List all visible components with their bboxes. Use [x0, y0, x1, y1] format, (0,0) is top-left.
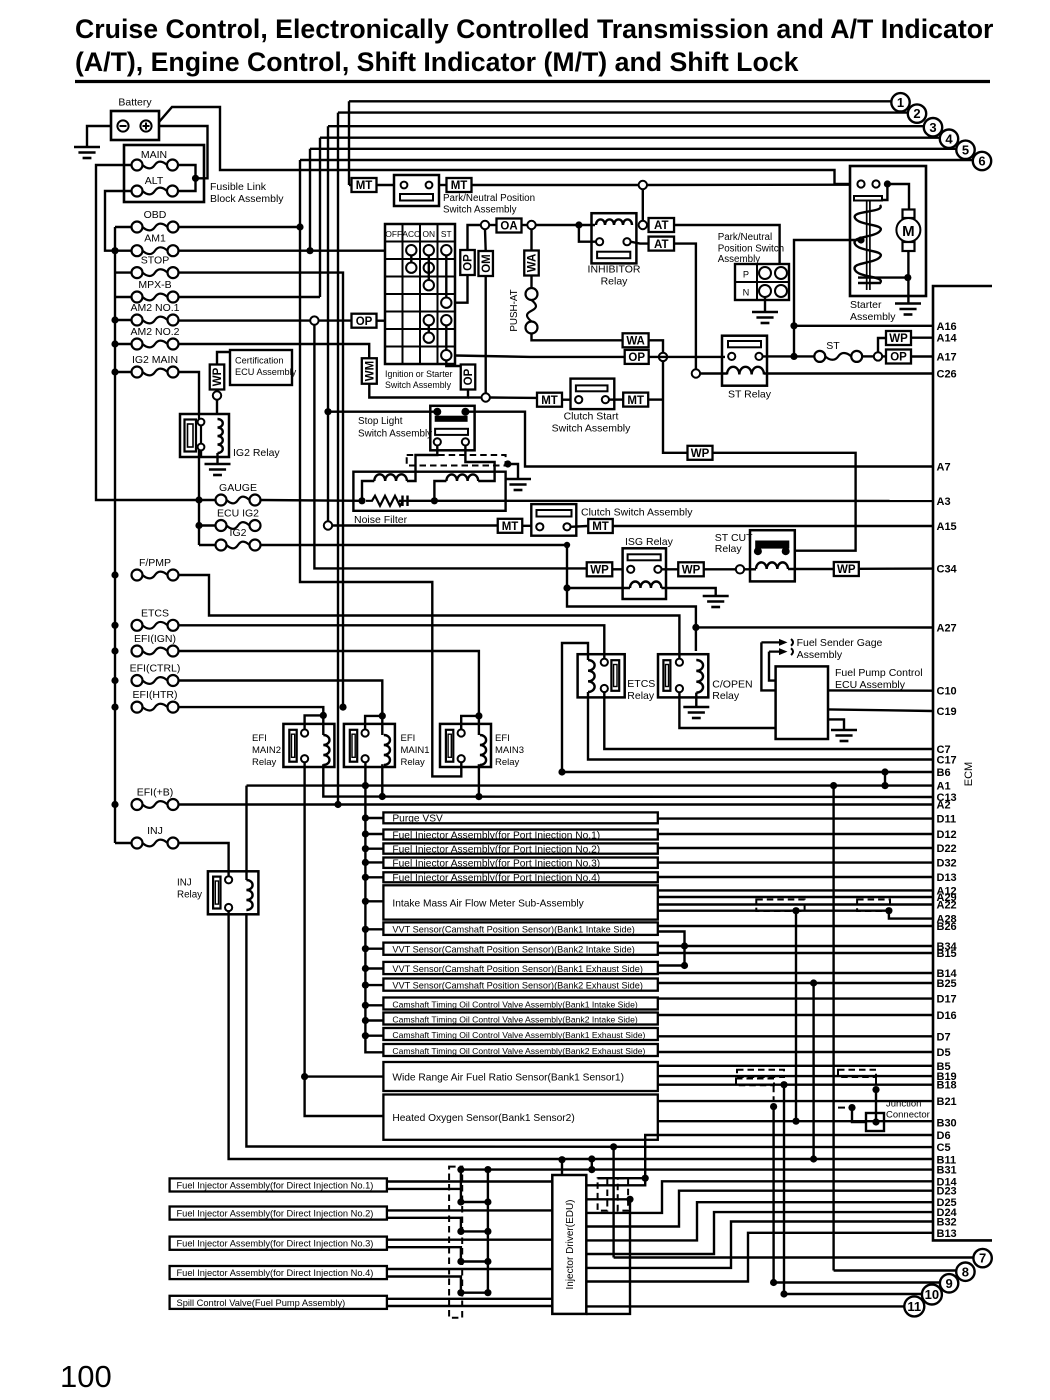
wire fuel injector direct 2 return	[387, 1218, 488, 1232]
junction gauge feed	[195, 496, 202, 503]
svg-text:Wide Range Air Fuel Ratio Sens: Wide Range Air Fuel Ratio Sensor(Bank1 S…	[392, 1072, 624, 1083]
wire C5 drop to circle 7	[612, 1147, 614, 1258]
ignition switch row line	[385, 258, 455, 260]
wire WP to IG2 relay coil	[216, 400, 218, 414]
wire A1 drop to circle 8	[832, 786, 834, 1271]
park/neutral contacts	[759, 267, 771, 279]
junction VVT sensor bank1 intake feed	[362, 926, 369, 933]
wire ISG to WP right	[662, 568, 679, 570]
ignition switch row line	[385, 241, 455, 243]
svg-text:INJ: INJ	[147, 825, 163, 837]
svg-text:VVT Sensor(Camshaft Position S: VVT Sensor(Camshaft Position Sensor)(Ban…	[392, 924, 634, 934]
svg-text:B13: B13	[937, 1228, 957, 1240]
wire VVT3 second stub	[658, 964, 685, 966]
wire OP bottom to WM bottom	[369, 384, 468, 398]
ignition contact ACC row1	[406, 245, 416, 255]
wire starter coil to ST relay	[794, 240, 861, 356]
junction VVT sensor bank2 intake feed	[362, 945, 369, 952]
park/neutral switch bar	[400, 194, 433, 201]
wire ALT left to bus	[105, 191, 132, 251]
junction A16 tap	[790, 322, 797, 329]
svg-text:B26: B26	[937, 921, 957, 933]
ground ISG relay	[703, 595, 729, 598]
junction B30 shield	[792, 1118, 799, 1125]
junction EDU feed	[558, 1156, 565, 1163]
wire AT lower to ST relay coil	[674, 244, 696, 370]
relay EFI MAIN2 box	[283, 724, 334, 767]
svg-text:Relay: Relay	[601, 276, 629, 288]
relay IG2 coil	[218, 419, 223, 453]
svg-text:C26: C26	[937, 369, 957, 381]
wire stop light left contact to noise filter	[407, 446, 437, 482]
relay ISG coil	[630, 582, 661, 588]
wire ETCS contact output to C7	[604, 692, 933, 749]
svg-text:EFI: EFI	[252, 733, 267, 744]
wire MAIN right loop	[178, 165, 196, 191]
wire ETCS fuse to ETCS relay contact	[179, 625, 605, 658]
wire fuel injector port 4 to D13	[658, 876, 933, 878]
relay INHIBITOR contact pins	[596, 238, 603, 245]
svg-text:OA: OA	[500, 221, 517, 233]
svg-text:Fuel Injector Assembly(for Dir: Fuel Injector Assembly(for Direct Inject…	[177, 1239, 374, 1249]
svg-text:Position Switch: Position Switch	[718, 244, 784, 255]
svg-text:Fuel Injector Assembly(for Dir: Fuel Injector Assembly(for Direct Inject…	[177, 1180, 374, 1190]
wire wide range feed	[305, 1075, 384, 1077]
svg-text:4: 4	[945, 131, 953, 146]
wire certification WP branch	[217, 352, 230, 365]
wire EDU shield drain	[598, 1177, 646, 1179]
svg-text:INJ: INJ	[177, 878, 192, 889]
svg-text:VVT Sensor(Camshaft Position S: VVT Sensor(Camshaft Position Sensor)(Ban…	[392, 980, 643, 990]
svg-text:Fuel Injector Assembly(for Por: Fuel Injector Assembly(for Port Injectio…	[392, 844, 600, 855]
fuse AM2 NO.1	[132, 315, 143, 326]
ground IG2 relay coil	[216, 453, 218, 463]
connector circle OA right	[527, 221, 535, 229]
connector MT clutch start left	[537, 393, 562, 407]
fuse INJ	[132, 838, 143, 849]
park/neutral switch pins	[401, 182, 408, 189]
wire ignition row7 to OP box	[455, 356, 625, 357]
wide range air fuel ratio sensor box	[383, 1062, 657, 1091]
connector circle below WP	[213, 391, 221, 399]
wire fuel injector port 1 to D12	[658, 833, 933, 835]
relay INJ bar	[213, 877, 220, 909]
ignition switch row line	[385, 293, 455, 295]
wire coil1 left down	[362, 481, 374, 501]
relay INHIBITOR box	[592, 213, 637, 263]
connector circle 7	[973, 1249, 991, 1267]
wire WP to ST CUT feed	[713, 453, 856, 551]
svg-text:Fusible Link: Fusible Link	[210, 181, 267, 193]
svg-text:C10: C10	[937, 686, 957, 698]
svg-text:D11: D11	[937, 814, 957, 826]
wire return bus stub	[460, 1170, 462, 1189]
svg-text:EFI: EFI	[401, 733, 416, 744]
relay ISG bar	[628, 554, 661, 560]
junction B11 drop	[810, 1155, 817, 1162]
svg-text:ETCS: ETCS	[627, 678, 655, 690]
connector circle 11	[904, 1296, 924, 1316]
wire bus1 drop to MT line	[348, 101, 350, 185]
svg-text:2: 2	[913, 106, 920, 121]
wire ST relay coil to C26	[764, 372, 933, 374]
wire spill control valve signal	[387, 1298, 552, 1300]
connector OP vertical ignition	[460, 250, 475, 275]
wire VVT sensor bank1 intake to B26	[658, 925, 933, 927]
wire OM drop	[484, 230, 487, 252]
park/neutral PN grid	[756, 264, 758, 300]
svg-text:A3: A3	[937, 496, 951, 508]
wire ST fuse to circle	[862, 355, 874, 357]
svg-text:Fuel Injector Assembly(for Dir: Fuel Injector Assembly(for Direct Inject…	[177, 1209, 374, 1219]
wire wide range air fuel ratio sensor to B19	[658, 1075, 933, 1077]
wire bus3 drop to stop light / ECU IG2	[327, 126, 329, 521]
wire resistor-cap link	[411, 500, 434, 502]
junction fuel injector direct 2 return b	[484, 1228, 491, 1235]
wire INJ contact output to B11	[229, 911, 933, 1159]
motor M	[896, 218, 920, 242]
wire IG2 to ISG coil	[261, 545, 631, 588]
svg-text:Assembly: Assembly	[850, 311, 896, 323]
wire camshaft timing valve bank2 intake to D16	[658, 1014, 933, 1016]
svg-text:Noise Filter: Noise Filter	[354, 514, 408, 526]
junction left bus	[111, 340, 118, 347]
dashed shield B19 line	[737, 1070, 784, 1077]
relay EFI MAIN3 box	[440, 724, 491, 767]
wire AM2 NO.1 to connector	[179, 319, 311, 321]
svg-text:A22: A22	[937, 900, 957, 912]
wire WP branch	[878, 338, 886, 352]
junction fuel injector direct 2 return a	[457, 1228, 464, 1235]
junction C5 drop to circle 7	[610, 1143, 617, 1150]
svg-text:ON: ON	[422, 229, 435, 239]
junction ecu ig2 feed	[195, 522, 202, 529]
wire fuel sender inner	[769, 652, 776, 681]
svg-text:B21: B21	[937, 1096, 957, 1108]
svg-text:Battery: Battery	[118, 97, 152, 109]
svg-text:OP: OP	[463, 368, 475, 385]
ignition ON column link2	[428, 325, 430, 332]
junction coil MAIN3	[475, 793, 482, 800]
svg-text:F/PMP: F/PMP	[139, 557, 171, 569]
junction B6/A1	[881, 782, 888, 789]
wire WP to C34	[859, 567, 933, 570]
wire clutch start feed right	[490, 396, 537, 399]
wire circle to OP	[882, 355, 886, 357]
wire EFI(CTRL) to MAIN1	[179, 681, 383, 736]
wire camshaft timing valve bank1 intake to D17	[658, 997, 933, 999]
junction bus2/EFI(+B)	[334, 801, 341, 808]
wire bus6 drop to EFI MAIN3 contact	[300, 160, 461, 776]
svg-text:Stop Light: Stop Light	[358, 416, 403, 427]
ignition switch row line	[385, 276, 455, 278]
svg-text:Block Assembly: Block Assembly	[210, 193, 284, 205]
connector OP left of ignition switch	[352, 314, 377, 328]
wire intake mass air flow meter to A22	[658, 903, 933, 905]
junction fuel injector port 4 feed	[362, 874, 369, 881]
svg-text:P: P	[743, 270, 749, 280]
wire left fuse bus	[114, 227, 116, 843]
wire OP to A17	[911, 355, 933, 357]
svg-text:ECU IG2: ECU IG2	[217, 508, 259, 520]
wire VVT sensor bank1 exhaust feed stub	[365, 967, 383, 969]
wire EDU to D14	[586, 1181, 933, 1213]
svg-text:Junction: Junction	[886, 1099, 921, 1110]
junction ISG coil feed	[563, 584, 570, 591]
svg-text:ECM: ECM	[963, 762, 975, 786]
connector circle OP line	[659, 353, 667, 361]
svg-text:D6: D6	[937, 1130, 951, 1142]
wire VVT sensor bank2 intake to B34	[658, 945, 933, 947]
noise filter coil 2	[446, 474, 478, 481]
wire MAIN2 contact feed	[305, 715, 324, 729]
svg-text:A14: A14	[937, 333, 958, 345]
connector circle 3	[924, 118, 942, 136]
svg-text:C34: C34	[937, 564, 958, 576]
wire coil2 left down	[434, 481, 446, 501]
svg-text:A15: A15	[937, 521, 957, 533]
wire fuse IG2 MAIN left stub	[115, 371, 132, 373]
junction IG2 line corner	[564, 542, 570, 548]
junction fuel injector direct 1 return a	[457, 1198, 464, 1205]
relay INJ contact pins	[225, 876, 232, 883]
junction purge VSV feed	[362, 814, 369, 821]
svg-text:Camshaft Timing Oil Control Va: Camshaft Timing Oil Control Valve Assemb…	[392, 1030, 645, 1040]
svg-text:ST: ST	[441, 229, 452, 239]
wire bus line 4	[320, 136, 940, 138]
clutch switch pins	[536, 523, 543, 530]
svg-text:MT: MT	[627, 395, 644, 407]
junction camshaft timing valve bank2 intake feed	[362, 1017, 369, 1024]
svg-text:MAIN: MAIN	[141, 149, 167, 161]
relay ETCS contact pins	[601, 659, 608, 666]
wire EFI(IGN) to MAIN3	[179, 651, 479, 735]
junction MAIN1/A1	[362, 782, 369, 789]
wire shield drain to circle 10	[783, 1085, 785, 1294]
wire MT row to AT drop	[472, 184, 643, 186]
svg-text:Injector Driver(EDU): Injector Driver(EDU)	[565, 1199, 576, 1289]
wire coil MAIN2 to C13	[323, 764, 933, 797]
svg-text:INHIBITOR: INHIBITOR	[588, 264, 641, 276]
fuse AM2 NO.2	[132, 339, 143, 350]
wire OM to clutch start line	[485, 276, 487, 393]
noise filter box	[353, 472, 505, 511]
relay ST CUT box	[750, 530, 795, 581]
wire injector return bus	[487, 1170, 489, 1293]
svg-text:Clutch Start: Clutch Start	[564, 411, 619, 423]
stop light switch box	[430, 406, 474, 451]
svg-text:D16: D16	[937, 1010, 957, 1022]
junction fuel injector port 3 feed	[362, 859, 369, 866]
svg-text:MAIN3: MAIN3	[495, 745, 524, 756]
wire bus2 drop to EFI(+B) line	[337, 113, 339, 805]
relay ST coil	[727, 367, 764, 375]
junction ST fuse feed	[790, 353, 797, 360]
clutch start pins	[575, 396, 582, 403]
fuse STOP	[132, 267, 143, 278]
svg-text:Purge VSV: Purge VSV	[392, 814, 443, 825]
wire MAIN1 output bus	[365, 762, 383, 1052]
ignition ON column link	[428, 255, 430, 280]
svg-text:D13: D13	[937, 872, 957, 884]
connector AT upper	[649, 218, 675, 232]
junction camshaft timing valve bank1 exhaust feed	[362, 1032, 369, 1039]
fuse MPX-B	[132, 292, 143, 303]
connector WA	[623, 333, 649, 347]
connector MT clutch start right	[623, 393, 648, 407]
fuse IG2 MAIN	[132, 367, 143, 378]
wire OP to ignition row5	[377, 320, 386, 322]
wire fuel injector direct 4 return	[387, 1277, 488, 1293]
junction VVT link B34	[681, 942, 688, 949]
connector OM vertical	[478, 251, 493, 276]
svg-text:D23: D23	[937, 1186, 957, 1198]
svg-text:Camshaft Timing Oil Control Va: Camshaft Timing Oil Control Valve Assemb…	[392, 1014, 637, 1024]
svg-text:Cruise Control, Electronically: Cruise Control, Electronically Controlle…	[75, 14, 993, 44]
svg-text:Camshaft Timing Oil Control Va: Camshaft Timing Oil Control Valve Assemb…	[392, 1046, 645, 1056]
svg-text:MT: MT	[356, 180, 373, 192]
wire bus line 3	[328, 125, 924, 127]
junction circle 10 feed	[780, 1290, 787, 1297]
wire MAIN2 output bus	[303, 762, 305, 1076]
wire heated oxygen sensor to B21	[658, 1100, 933, 1102]
ignition contact ON row1	[424, 245, 434, 255]
svg-text:ECU Assembly: ECU Assembly	[235, 367, 297, 377]
camshaft timing valve bank2 intake box	[383, 1013, 657, 1025]
svg-text:IG2 Relay: IG2 Relay	[233, 447, 280, 459]
spill control valve box	[170, 1296, 387, 1309]
svg-text:B31: B31	[937, 1165, 957, 1177]
VVT sensor bank2 intake box	[383, 943, 657, 955]
wire AM2 NO.2 to WM	[179, 344, 370, 359]
svg-text:VVT Sensor(Camshaft Position S: VVT Sensor(Camshaft Position Sensor)(Ban…	[392, 945, 634, 955]
junction fusible link feed	[192, 175, 199, 182]
svg-text:ST Relay: ST Relay	[728, 389, 772, 401]
connector WP A14	[886, 331, 911, 345]
connector circle OA left	[481, 221, 489, 229]
svg-text:IG2: IG2	[230, 527, 247, 539]
connector MT clutch switch right	[588, 519, 613, 533]
svg-text:5: 5	[962, 142, 969, 157]
svg-text:Relay: Relay	[627, 690, 655, 702]
ignition ST column link	[445, 255, 447, 297]
wire purge VSV to D11	[658, 817, 933, 819]
wire VVT1 second stub	[658, 932, 685, 966]
wire AT upper to PN switch	[674, 225, 780, 264]
ignition contact ST row7	[441, 350, 451, 360]
dashed shield right drain stub	[875, 1077, 877, 1086]
fuel injector direct 1 box	[170, 1178, 387, 1191]
wire fuel injector direct 2 signal	[387, 1209, 552, 1211]
connector WP clutch	[688, 446, 713, 460]
junction bus3 stop light feed	[324, 408, 331, 415]
wire fuel injector direct 3 signal	[387, 1238, 552, 1240]
ignition switch row line	[385, 311, 455, 313]
wire WP to ST CUT circle	[704, 568, 736, 570]
svg-text:MT: MT	[592, 521, 609, 533]
wire ETCS relay coil feed from B6 line	[562, 643, 588, 772]
svg-text:9: 9	[945, 1276, 952, 1291]
purge VSV box	[383, 812, 657, 823]
wire C-OPEN contact to fuel pump ECU	[679, 692, 775, 728]
relay ISG box	[623, 548, 666, 599]
relay EFI MAIN2 bar	[289, 730, 296, 762]
wire coil circle to AT	[647, 224, 649, 226]
connector circle ST	[874, 352, 882, 360]
wire INJ coil output to C5	[246, 913, 933, 1147]
connector circle ST CUT	[736, 565, 744, 573]
wire ISG coil to ground	[661, 588, 715, 595]
connector circle 2	[908, 104, 926, 122]
wire OA right stub	[522, 224, 528, 226]
svg-text:C5: C5	[937, 1142, 951, 1154]
wire MAIN1 contact feed	[365, 716, 382, 730]
dashed shield on A22 line	[756, 900, 804, 912]
junction left bus	[111, 316, 118, 323]
dashed shield B19 drain stub	[773, 1085, 775, 1102]
junction connector box	[866, 1113, 884, 1131]
wire bus4 drop to MPX-B	[319, 138, 321, 297]
svg-text:A2: A2	[937, 800, 951, 812]
wire OA to inhibitor relay	[536, 224, 595, 226]
camshaft timing valve bank2 exhaust box	[383, 1044, 657, 1056]
ground starter	[895, 302, 921, 305]
wire EDU to B32	[586, 1222, 933, 1268]
starter assembly box	[850, 166, 926, 296]
svg-text:OP: OP	[890, 352, 907, 364]
ignition contact ST row1	[441, 245, 451, 255]
svg-text:(A/T), Engine Control, Shift I: (A/T), Engine Control, Shift Indicator (…	[75, 47, 799, 77]
svg-text:MT: MT	[502, 521, 519, 533]
junction left bus	[111, 647, 118, 654]
wire to circle 9	[774, 1281, 940, 1283]
junction STOP line end	[339, 704, 346, 711]
connector circle OM end	[482, 393, 490, 401]
fuse ST	[814, 351, 825, 362]
fuel injector port 4 box	[383, 872, 657, 882]
wire shield to A28	[889, 911, 933, 919]
ignition contact ACC row2	[406, 263, 416, 273]
svg-text:11: 11	[907, 1299, 921, 1314]
wire purge VSV feed stub	[365, 817, 383, 819]
wire to circle 8	[834, 1269, 957, 1271]
wire intake mass air flow meter to A12	[658, 889, 933, 891]
fusible link block box	[124, 145, 204, 202]
connector circle 5	[956, 141, 974, 159]
wire battery positive feed top	[159, 107, 851, 184]
relay ISG contact pins	[627, 566, 634, 573]
relay IG2 box	[180, 414, 229, 457]
fusible link ALT	[132, 186, 143, 197]
relay EFI MAIN2 coil	[323, 735, 329, 765]
stop light switch lower bar	[435, 429, 468, 435]
fuel injector direct 4 box	[170, 1266, 387, 1279]
wire WA drop	[530, 230, 532, 251]
ground fuel pump ECU	[831, 729, 857, 732]
junction B6 jog	[881, 768, 888, 775]
svg-text:Switch Assembly: Switch Assembly	[358, 429, 432, 440]
relay EFI MAIN1 box	[344, 724, 395, 767]
fuel pump control ECU box	[776, 666, 828, 739]
svg-text:MAIN1: MAIN1	[401, 745, 430, 756]
wire fuel pump ECU ground	[828, 719, 844, 729]
wire B6 line	[562, 771, 933, 773]
svg-text:AM2 NO.1: AM2 NO.1	[130, 302, 179, 314]
svg-text:ACC: ACC	[402, 229, 420, 239]
svg-text:MAIN2: MAIN2	[252, 745, 281, 756]
wire shield drain to circle 9	[772, 1107, 774, 1283]
connector MT top left	[352, 178, 377, 192]
